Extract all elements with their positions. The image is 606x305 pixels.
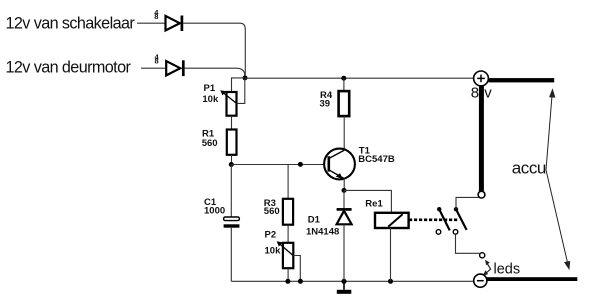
node C junction dot on base rail <box>298 162 303 167</box>
wire: deurmotor input to diode <box>141 67 166 69</box>
wire: D1 anode to ground rail <box>343 224 345 281</box>
accu double arrow <box>546 88 570 270</box>
relay actuation dashed link <box>409 219 458 222</box>
thick wire: accu + down to switch terminal <box>479 86 484 192</box>
svg-text:10k: 10k <box>202 94 219 105</box>
ground rail wire <box>231 280 473 282</box>
leds output terminal circle <box>480 253 485 258</box>
ground symbol <box>337 281 352 294</box>
switch pole 1 blade <box>439 209 450 230</box>
transistor T1 <box>324 145 395 179</box>
capacitor C1 <box>204 197 239 228</box>
relay Re1 coil <box>365 199 408 228</box>
svg-text:Re1: Re1 <box>365 199 383 210</box>
wire: R3 bottom to P2 top <box>287 225 289 243</box>
Re1 coil diagonal <box>388 214 402 226</box>
node A junction dot <box>243 75 248 80</box>
svg-text:1000: 1000 <box>204 205 225 216</box>
switch pole 2 pivot dot <box>454 207 458 211</box>
P1 wiper diagonal <box>223 92 237 103</box>
wire: P2 wiper to ground rail <box>293 256 300 282</box>
switch pole 1 contact circle <box>436 230 441 235</box>
wire: P1 wiper to node A <box>237 79 245 103</box>
svg-text:12v van deurmotor: 12v van deurmotor <box>6 59 132 77</box>
svg-text:P2: P2 <box>265 230 277 241</box>
wire: switch contact to leds terminal <box>456 234 480 253</box>
leds arrow to switch contact terminal <box>483 260 491 276</box>
junction dot ground stem <box>342 279 347 284</box>
svg-text:8: 8 <box>471 85 479 102</box>
T1 emitter arrowhead <box>336 173 343 179</box>
T1 collector diagonal <box>329 150 344 158</box>
switch pole 2 blade <box>456 209 467 230</box>
switch feed terminal circle <box>478 191 485 198</box>
wire: R1 bottom to node B <box>231 155 233 165</box>
svg-text:39: 39 <box>320 98 331 109</box>
diode D3 (deurmotor) <box>166 60 183 76</box>
P1 wiper arrowhead <box>220 90 226 95</box>
resistor R3 <box>264 198 293 225</box>
resistor R1 <box>202 128 237 155</box>
svg-text:12v van schakelaar: 12v van schakelaar <box>6 14 136 32</box>
wire: D3 cathode to node A <box>185 68 245 77</box>
svg-text:8: 8 <box>155 57 159 66</box>
node D junction dot <box>342 188 347 193</box>
wire: node A to R4 top and accu + <box>245 77 474 79</box>
P2 wiper arrowhead <box>277 241 283 246</box>
svg-text:D1: D1 <box>308 214 321 225</box>
wire: node B down to C1 <box>230 165 232 218</box>
switch pole 2 contact circle <box>453 230 458 235</box>
svg-text:BC547B: BC547B <box>358 154 395 165</box>
P1 body <box>227 92 237 116</box>
wire: base rail to R3 top <box>287 165 289 199</box>
junction dot relay bottom <box>388 279 393 284</box>
svg-text:accu: accu <box>512 158 546 177</box>
svg-text:v: v <box>484 85 492 102</box>
diode D1 <box>306 209 352 237</box>
wire: node A to P1 top <box>232 78 245 92</box>
wire: switch pole 2 up to accu + terminal <box>456 197 479 209</box>
svg-text:8: 8 <box>154 12 158 21</box>
wire: C1 bottom to ground rail <box>230 228 232 282</box>
wire: relay bottom to ground rail <box>390 228 392 281</box>
svg-text:560: 560 <box>202 138 218 149</box>
diode D2 (schakelaar) <box>166 16 182 32</box>
wire: base rail node B to T1 base <box>231 164 328 166</box>
wire: P1 bottom to R1 top <box>231 116 233 130</box>
accu + terminal circle <box>474 71 489 86</box>
wire: R4 bottom to T1 collector <box>343 116 345 150</box>
wire: node to R4 top <box>343 78 345 91</box>
accu - thick lead bar <box>487 277 578 281</box>
junction dot P2 bottom <box>285 279 290 284</box>
wire: P2 bottom to ground rail <box>287 268 289 281</box>
junction dot R4 top <box>341 76 346 81</box>
accu + thick lead bar <box>489 78 555 82</box>
leds arrow to accu - terminal <box>485 269 491 275</box>
switch pole 1 pivot dot <box>437 207 441 211</box>
wire: node D to D1 <box>343 190 345 208</box>
svg-text:10k: 10k <box>265 245 282 256</box>
wire: D2 cathode to node A <box>183 23 245 75</box>
junction dot P2 wiper <box>298 279 303 284</box>
svg-text:P1: P1 <box>204 83 216 94</box>
potentiometer P1 <box>202 78 244 116</box>
P2 wiper diagonal <box>279 243 293 255</box>
node B junction dot <box>229 162 234 167</box>
T1 emitter diagonal <box>329 170 344 179</box>
potentiometer P2 <box>265 230 301 281</box>
accu - terminal circle <box>474 274 487 287</box>
svg-text:leds: leds <box>494 261 521 277</box>
wire: T1 emitter down to node D <box>343 179 345 191</box>
wire: node D to relay top <box>344 190 391 212</box>
wire: schakelaar input to diode <box>137 22 166 24</box>
resistor R4 <box>320 90 350 116</box>
svg-text:560: 560 <box>264 206 280 217</box>
T1 base bar <box>327 156 330 171</box>
svg-text:1N4148: 1N4148 <box>306 226 339 237</box>
